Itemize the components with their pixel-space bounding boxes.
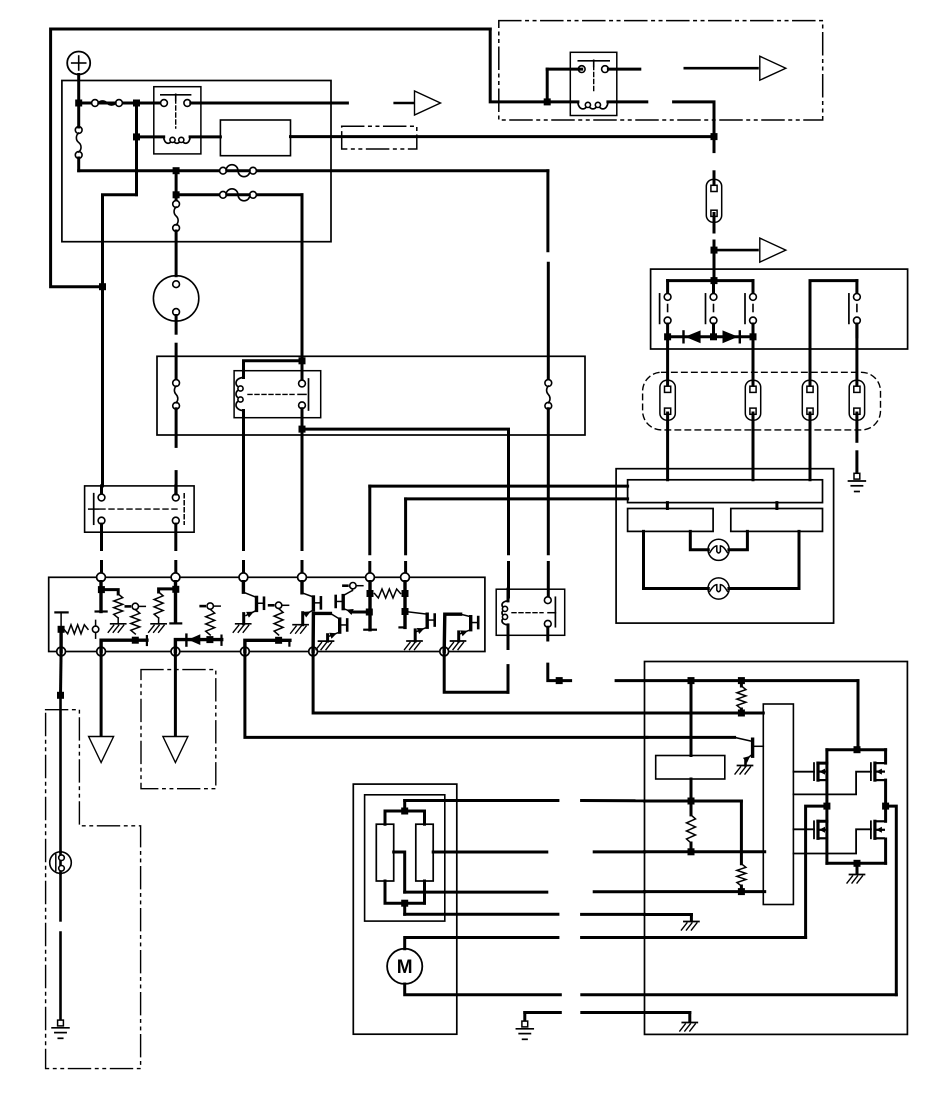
wire S2b down [174,524,177,577]
driver IC U5 [763,704,793,905]
wire B2 down [100,652,103,737]
relay R2 coil [547,102,647,109]
wire coil out to junction [674,102,718,140]
switch SW2 [706,281,717,337]
wire x302 down to Q box [301,429,304,577]
resistor R6 [737,864,746,895]
ignition box [157,356,585,435]
wire input 2 [406,497,628,500]
wire battery to fuse box [77,75,80,104]
wire input 1 [370,485,628,488]
wire S2a down [100,524,103,577]
wire bus y280.6 [668,277,753,284]
switch SW3 [745,281,756,337]
mosfet M3 [793,806,827,863]
transistor Q4 [313,613,347,651]
transistor Q1 [233,582,264,633]
relay R1 coil [133,133,220,143]
bus B2 [101,636,147,651]
fuse F3 [220,165,257,177]
connector P7 (round 2-pin) [50,852,72,874]
wire x714 down [713,137,716,187]
motor assembly box [353,784,457,1034]
mosfet M1 [793,763,830,810]
terminal B1 bottom [57,647,66,656]
node T2 stem [170,582,181,624]
motor M [387,949,422,984]
wire mid-right to motor [886,806,897,995]
connector P5 [802,380,817,420]
wire R4 coil bottom [507,635,510,692]
switch linkage [100,508,181,510]
wire sw1 down [666,337,669,388]
mosfet M2 [871,750,889,810]
diode bus y336.8 [664,333,756,340]
wire S2b top [174,486,177,494]
trimmer TC1 [126,603,146,609]
wire B5 down-right [313,652,647,714]
arrow to circuit B [685,56,786,80]
arrow to circuit E [163,737,188,763]
wire P7 down to ground [59,873,62,1018]
wire y914.5 to gnd [645,915,699,931]
wire R2 contact right [608,68,639,71]
ground G3 [149,618,167,632]
fuse F4 [220,189,257,201]
switch S2a [89,486,105,524]
resistor R2a horizontal [64,620,99,638]
wire P1 to ignition switch box [175,316,178,381]
relay R3 box [234,371,321,418]
svg-text:M: M [397,957,413,978]
wire jog to x102 [103,195,137,287]
fuse F1 [92,100,123,107]
switch SW4 [810,281,860,349]
wire P3 down [666,413,669,480]
H-bridge bottom bar [827,860,886,867]
gate wire M2 [793,772,871,795]
relay R4 box [496,589,565,635]
sensor wiper B [433,850,644,853]
relay R3 contacts [248,379,309,410]
ground G5 [847,863,865,883]
terminal T5 top [366,573,375,582]
wire U2-U4 [775,503,778,509]
wire sw4 down [855,324,858,388]
trimmer TC2 [201,603,221,609]
resistor R2d [154,589,174,618]
wire R3 contact bottom [299,409,306,433]
resistor R2c [131,610,140,634]
ground G7 [680,1013,698,1032]
relay R4 coil [502,589,508,635]
trimmer TC3 [269,602,289,608]
wire y851.8 [645,850,765,853]
sensor bottom bus [385,881,425,914]
sensor wiper A [394,852,405,892]
wire U2-U3 [666,503,669,509]
terminal B6 bottom [440,647,449,656]
wire R2 contact left [544,69,582,105]
wire x302 down [301,195,304,361]
arrow to circuit A [395,91,441,115]
wire P6 to ground [855,413,858,473]
connector P6 [849,380,864,420]
wire B3 down [174,652,177,737]
wire x548 top [546,171,549,251]
wire main loop top/left [51,29,491,287]
arrow to circuit C [714,238,786,262]
leveling unit box [616,469,834,623]
bulb LP2 [708,578,729,599]
terminal B2 bottom [97,647,106,656]
ground G2 [108,618,126,632]
ground G4 [52,1020,69,1038]
dash-dot box (option) [141,670,216,789]
wire x858 down [854,681,861,754]
wire y801 sensor vcc [645,801,742,864]
wire y891.6 [645,890,765,893]
ground G6 [516,1021,533,1039]
wire mid-left to motor [806,806,827,937]
connector box (dash-dot) C1 [342,126,417,149]
dash-dot box (column/combination sw) top right [499,21,823,120]
arrow to circuit D [89,737,114,763]
transistor Q7 [735,737,764,774]
wire x810 down [809,349,812,388]
control unit box U1 [49,577,485,651]
H-bridge top bar [818,750,886,763]
transistor Q6 [444,614,478,651]
switch box S2 [85,486,195,532]
switch SW1 [660,281,671,337]
component box K1 (ignition coil unit) [220,120,290,156]
relay R1 contacts [161,94,191,128]
wire y713 to IC [647,712,763,715]
node x370 column [364,582,376,630]
transistor Q2 [291,582,321,634]
wire LP1 leads [690,531,747,549]
connector P4 [745,380,760,420]
wire y680.6 feed [616,677,858,684]
wire bus y103 [75,100,164,107]
wire C wiper out [405,890,645,893]
ground G1 [849,473,866,491]
fuse F7 vertical [545,263,552,554]
sensor box [365,795,445,921]
gate wire M4 [793,829,871,853]
wire x369.8 down [368,486,371,577]
node x405 column [400,582,409,628]
connector block (dashed) [643,372,881,430]
terminal T1 top [97,573,106,582]
wire sw3 down [752,337,755,388]
diode D1 [684,330,701,343]
transistor Q5 [405,612,435,650]
relay R1 box [154,87,201,154]
sensor resistor RA [376,824,393,881]
terminal B3 bottom [171,647,180,656]
control rect U2 [628,480,823,503]
wire y737.4 base feed [647,736,735,739]
rect U4 [731,509,823,532]
rect U3 [628,509,714,532]
wire motor- [405,984,897,995]
relay R2 contacts [578,60,609,93]
sensor resistor RB [416,824,433,881]
wire D sensor gnd out [405,913,645,916]
terminal T3 top [239,573,248,582]
wire B1 down [57,652,64,853]
wire bus y194.8 [173,191,302,198]
wire x508.5 resume [507,563,510,598]
bulb LP1 [708,539,729,560]
dash-dot region (body harness) [46,710,141,1069]
relay R2 box [570,52,617,115]
wire P4 down [752,413,755,480]
terminal T6 top [401,573,410,582]
terminal T4 top [298,573,307,582]
wire relay R1 vertical [135,103,138,195]
fuse F5 vertical [173,171,180,276]
module box U6 [656,756,725,780]
resistor R7 [687,801,696,855]
wire B4 down-right [245,652,647,738]
node T1 branch [96,582,119,612]
wire jog to x508.5 [302,429,509,554]
mosfet M4 [871,806,886,863]
wire F6 gap resume [175,472,178,494]
wire R4 contact bottom [548,627,571,684]
wire P2 down [711,214,718,281]
bus B4 [245,637,290,652]
resistor R2e [206,609,215,635]
fuse F6 vertical [173,380,180,447]
wire R4 coil to B6 [444,652,508,693]
resistor R5 [737,681,746,717]
fuse F2 vertical [75,103,82,171]
battery B1 positive terminal [67,52,90,75]
connector P1 (2-pin round) [153,276,198,321]
actuator box [645,662,908,1035]
terminal B5 bottom [309,647,318,656]
switch box S1 [651,269,908,349]
wire long feed y136.6 [291,135,715,138]
wire module down [688,779,695,805]
wire x548 resume [547,563,550,598]
diode D2 [723,330,740,343]
relay R3 coil [236,378,244,436]
wire x102 down to switch [99,283,106,486]
connector P3 [660,380,675,420]
wire P5 down [809,413,812,480]
terminal T2 top [171,573,180,582]
fuse box (dash/relay box) [62,81,331,242]
ground G6 wire [525,1013,690,1020]
connector P2 (in-line) [706,179,721,222]
wire x691 to module [690,681,693,756]
wire contact out to arrow [191,102,348,105]
node B1 stem [55,612,67,651]
wire R3 feed [244,357,306,380]
transistor Q3 [336,583,369,616]
resistor R2b [114,594,123,618]
wire LP2 leads [644,531,800,588]
wire A sensor vcc out [405,799,645,802]
wire feed to relay R2 [490,29,547,102]
wire R3 coil down [242,435,245,577]
resistor R2f [274,609,283,636]
bus B3 with diode D3 [175,634,221,651]
wire bus y170.7 [79,167,548,174]
wire x405.6 down [404,499,407,577]
wire motor+ [405,938,806,949]
sensor top bus [385,801,425,825]
resistor R2g horizontal [375,589,401,598]
relay R4 contacts [512,597,555,627]
switch S2b [172,494,184,525]
terminal B4 bottom [241,647,250,656]
